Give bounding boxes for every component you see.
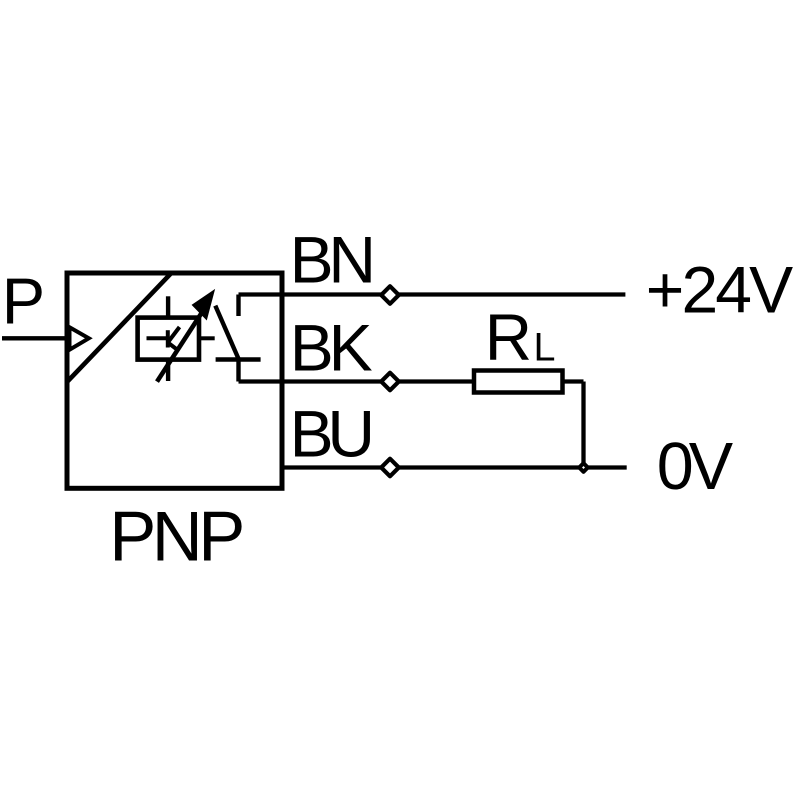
adjuster internal line: [147, 336, 167, 340]
adjuster internal chevron upper arm: [168, 327, 180, 343]
wire corner down to 0V line: [581, 382, 585, 468]
adjuster internal bar: [166, 330, 170, 347]
wire P input: [2, 336, 67, 340]
svg-text:BU: BU: [290, 396, 376, 470]
stub below adjuster box: [166, 360, 170, 381]
svg-text:P: P: [2, 265, 45, 338]
connector diamond BU: [381, 459, 399, 477]
setpoint adjuster box: [138, 318, 199, 360]
adjuster internal chevron lower arm: [168, 343, 177, 350]
stub above adjuster box: [166, 296, 170, 317]
resistor RL body: [474, 371, 563, 393]
wire resistor to corner: [563, 379, 584, 383]
svg-text:BN: BN: [290, 223, 377, 297]
svg-text:R: R: [485, 301, 532, 374]
wire BU / 0V line: [282, 465, 627, 469]
svg-text:PNP: PNP: [109, 496, 245, 575]
wire BK to resistor: [239, 379, 475, 383]
switch upper terminal stub: [236, 295, 240, 317]
svg-text:+24V: +24V: [646, 253, 793, 327]
adjustment arrowhead: [195, 293, 213, 317]
junction diamond on 0V line: [579, 463, 588, 472]
connector diamond BK: [381, 373, 399, 391]
P input arrowhead: [70, 327, 89, 349]
switch contact bar: [216, 357, 261, 361]
switch lever: [215, 306, 239, 361]
switch lower terminal stub: [236, 360, 240, 382]
wire BN to +24V: [239, 292, 626, 296]
sensor body diagonal line: [67, 273, 171, 382]
svg-text:L: L: [534, 325, 556, 369]
sensor body box U1: [67, 273, 282, 488]
adjuster output line to switch: [199, 336, 215, 340]
adjustment arrow shaft: [157, 310, 204, 382]
svg-text:BK: BK: [290, 311, 373, 385]
svg-text:0V: 0V: [657, 430, 734, 504]
connector diamond BN: [381, 286, 399, 304]
